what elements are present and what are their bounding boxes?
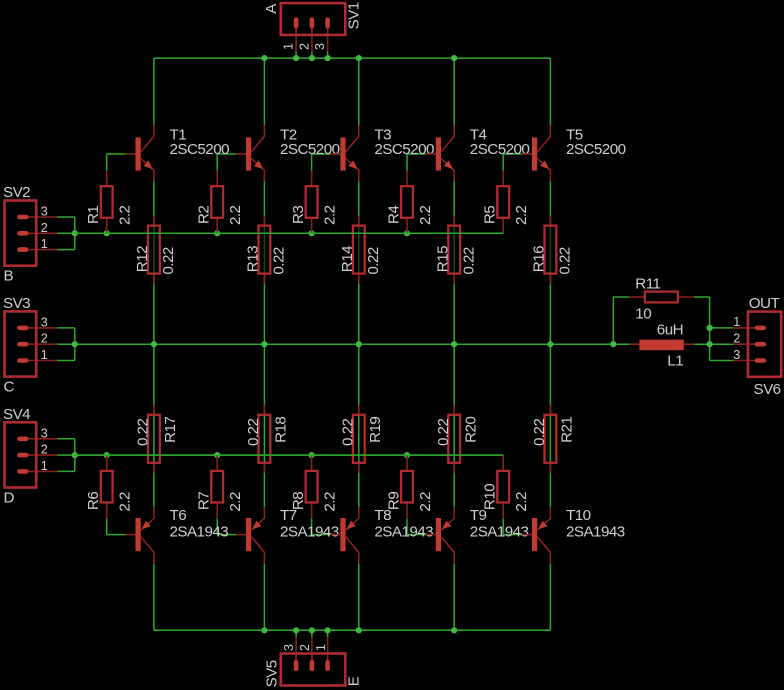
resistor R4 (2.2)	[401, 171, 413, 234]
junction top rail	[451, 55, 457, 61]
resistor R19 (0.22)	[353, 405, 365, 473]
svg-text:R17: R17	[162, 417, 179, 443]
svg-text:1: 1	[733, 315, 740, 329]
connector SV3	[5, 311, 58, 376]
junction bottom rail	[309, 627, 315, 633]
resistor R17 (0.22)	[148, 405, 160, 473]
wire column 2 lower segment	[263, 564, 265, 631]
svg-text:2SC5200: 2SC5200	[170, 141, 230, 158]
wire base branch T2 horizontal	[217, 153, 236, 155]
junction row C	[610, 341, 616, 347]
svg-text:R2: R2	[196, 206, 213, 224]
transistor T4 (2SC5200) NPN	[426, 125, 455, 181]
junction row C	[72, 341, 78, 347]
svg-text:T6: T6	[170, 507, 187, 524]
wire column 3 emitter to row C segment	[358, 181, 360, 344]
wire column 5 emitter to row C segment	[549, 181, 551, 344]
svg-text:R13: R13	[245, 246, 262, 272]
connector SV6	[733, 312, 781, 377]
svg-text:1: 1	[314, 644, 328, 651]
wire SV6 pin 3 net	[710, 360, 733, 362]
svg-text:2SA1943: 2SA1943	[374, 523, 433, 540]
svg-text:0.22: 0.22	[160, 247, 177, 274]
wire column 1 row C to bottom emitter segment	[153, 344, 155, 507]
svg-text:2: 2	[298, 644, 312, 651]
transistor T8 (2SA1943) PNP	[330, 507, 359, 563]
resistor R6 (2.2)	[101, 455, 113, 518]
transistor T1 (2SC5200) NPN	[125, 125, 153, 181]
svg-text:2SA1943: 2SA1943	[470, 523, 529, 540]
wire SV2 pin 1 net	[57, 249, 75, 251]
junction bottom rail	[261, 627, 267, 633]
wire column 3 lower segment	[358, 564, 360, 631]
resistor R5 (2.2)	[497, 171, 509, 234]
junction top rail	[293, 55, 299, 61]
svg-text:R14: R14	[339, 246, 356, 272]
svg-text:R4: R4	[385, 206, 402, 224]
svg-text:2.2: 2.2	[117, 492, 134, 512]
junction row D	[72, 452, 78, 458]
inductor L1 (6uH)	[629, 340, 694, 351]
connector SV5	[281, 637, 345, 686]
wire row D net (bases bottom)	[75, 454, 503, 456]
junction row C	[151, 341, 157, 347]
svg-text:R16: R16	[531, 246, 548, 272]
svg-text:2.2: 2.2	[322, 205, 339, 225]
svg-text:R3: R3	[290, 206, 307, 224]
junction row C	[707, 341, 713, 347]
wire base branch T5 horizontal	[503, 153, 522, 155]
resistor R13 (0.22)	[259, 216, 271, 284]
svg-text:0.22: 0.22	[340, 419, 357, 446]
wire base branch T8 horizontal	[312, 534, 331, 536]
junction row B	[72, 230, 78, 236]
svg-text:3: 3	[41, 316, 48, 330]
wire base branch T1 horizontal	[107, 153, 126, 155]
wire row C net (output)	[75, 343, 630, 345]
svg-text:3: 3	[313, 43, 327, 50]
wire SV1 pin net	[311, 52, 313, 59]
junction row B	[104, 230, 110, 236]
wire base branch T1 vertical	[106, 154, 108, 171]
junction bottom rail	[325, 627, 331, 633]
svg-text:0.22: 0.22	[531, 419, 548, 446]
svg-text:1: 1	[282, 43, 296, 50]
svg-text:0.22: 0.22	[365, 247, 382, 274]
resistor R18 (0.22)	[259, 405, 271, 473]
wire base branch T4 horizontal	[407, 153, 426, 155]
svg-text:T10: T10	[566, 507, 591, 524]
wire SV5 pin net	[295, 630, 297, 637]
junction bottom rail	[293, 627, 299, 633]
resistor R15 (0.22)	[448, 216, 460, 284]
junction row D	[214, 452, 220, 458]
junction row B	[309, 230, 315, 236]
svg-text:2SC5200: 2SC5200	[280, 141, 340, 158]
resistor R9 (2.2)	[401, 455, 413, 518]
junction top rail	[325, 55, 331, 61]
svg-text:0.22: 0.22	[135, 419, 152, 446]
wire base branch T7 vertical	[216, 519, 218, 535]
svg-text:2SC5200: 2SC5200	[566, 141, 626, 158]
resistor R1 (2.2)	[101, 171, 113, 234]
transistor T9 (2SA1943) PNP	[426, 507, 455, 563]
svg-text:2SA1943: 2SA1943	[566, 523, 625, 540]
connector SV4	[5, 422, 58, 487]
wire SV6 pin 1 net	[710, 327, 733, 329]
svg-text:2.2: 2.2	[322, 492, 339, 512]
resistor R16 (0.22)	[545, 216, 557, 284]
svg-text:R1: R1	[85, 206, 102, 224]
resistor R12 (0.22)	[148, 216, 160, 284]
resistor R3 (2.2)	[306, 171, 318, 234]
resistor R21 (0.22)	[545, 405, 557, 473]
wire base branch T4 vertical	[406, 154, 408, 171]
wire column 1 upper segment	[153, 58, 155, 125]
svg-text:R5: R5	[482, 206, 499, 224]
wire R11 left horizontal	[613, 296, 629, 298]
wire base branch T3 vertical	[311, 154, 313, 171]
wire column 2 upper segment	[263, 58, 265, 125]
resistor R8 (2.2)	[306, 455, 318, 518]
junction row C	[356, 341, 362, 347]
svg-text:B: B	[4, 268, 14, 285]
resistor R7 (2.2)	[211, 455, 223, 518]
junction row B	[404, 230, 410, 236]
wire column 2 emitter to row C segment	[263, 181, 265, 344]
svg-text:R9: R9	[385, 492, 402, 510]
svg-text:SV1: SV1	[346, 2, 363, 29]
wire column 3 upper segment	[358, 58, 360, 125]
svg-text:R20: R20	[462, 417, 479, 443]
wire base branch T6 horizontal	[107, 534, 126, 536]
svg-text:3: 3	[41, 426, 48, 440]
svg-text:2.2: 2.2	[227, 492, 244, 512]
wire base branch T10 horizontal	[503, 534, 522, 536]
wire base branch T2 vertical	[216, 154, 218, 171]
svg-text:R15: R15	[434, 246, 451, 272]
svg-text:0.22: 0.22	[460, 247, 477, 274]
svg-text:2SA1943: 2SA1943	[280, 523, 339, 540]
wire column 4 lower segment	[453, 564, 455, 631]
wire column 5 lower segment	[549, 564, 551, 631]
wire R11 branch vertical left	[612, 297, 614, 344]
svg-text:0.22: 0.22	[435, 419, 452, 446]
wire SV4 pin 2 net	[57, 454, 75, 456]
wire column 5 upper segment	[549, 58, 551, 125]
svg-text:D: D	[4, 489, 15, 506]
wire bottom rail net	[154, 629, 551, 631]
svg-text:L1: L1	[667, 353, 683, 370]
svg-text:1: 1	[41, 348, 48, 362]
wire SV5 pin net	[311, 630, 313, 637]
svg-text:R7: R7	[196, 492, 213, 510]
junction SV6 pin1 node	[707, 325, 713, 331]
junction row D	[309, 452, 315, 458]
svg-text:0.22: 0.22	[557, 247, 574, 274]
wire SV4 pin 3 net	[57, 438, 75, 440]
junction row B	[214, 230, 220, 236]
svg-text:10: 10	[635, 305, 651, 322]
svg-text:3: 3	[41, 205, 48, 219]
wire row B net overlay	[75, 232, 503, 234]
svg-text:2: 2	[297, 43, 311, 50]
transistor T10 (2SA1943) PNP	[522, 507, 551, 563]
junction bottom rail	[451, 627, 457, 633]
svg-text:2.2: 2.2	[513, 492, 530, 512]
transistor T6 (2SA1943) PNP	[125, 507, 153, 563]
junction top rail	[309, 55, 315, 61]
wire column 5 row C to bottom emitter segment	[549, 344, 551, 507]
svg-text:R18: R18	[273, 417, 290, 443]
connector SV1	[281, 3, 345, 51]
svg-text:2.2: 2.2	[227, 205, 244, 225]
wire column 2 row C to bottom emitter segment	[263, 344, 265, 507]
junction row C	[547, 341, 553, 347]
resistor R2 (2.2)	[211, 171, 223, 234]
wire base branch T6 vertical	[106, 519, 108, 535]
svg-text:3: 3	[733, 348, 740, 362]
svg-text:3: 3	[282, 644, 296, 651]
svg-text:2: 2	[733, 332, 740, 346]
svg-text:2SC5200: 2SC5200	[470, 141, 530, 158]
svg-text:SV5: SV5	[263, 660, 280, 687]
wire SV4 pin bundle vertical stub	[74, 439, 76, 472]
svg-text:2.2: 2.2	[513, 205, 530, 225]
wire R11 right horizontal	[694, 296, 710, 298]
wire row C net right of L1	[694, 343, 733, 345]
svg-text:1: 1	[41, 459, 48, 473]
svg-text:R11: R11	[635, 275, 660, 292]
svg-text:0.22: 0.22	[245, 419, 262, 446]
junction top rail	[356, 55, 362, 61]
wire column 1 emitter to row C segment	[153, 181, 155, 344]
svg-text:2SA1943: 2SA1943	[170, 523, 229, 540]
svg-text:A: A	[263, 3, 280, 14]
junction top rail	[261, 55, 267, 61]
wire SV5 pin net	[327, 630, 329, 637]
transistor T3 (2SC5200) NPN	[330, 125, 359, 181]
transistor T5 (2SC5200) NPN	[522, 125, 551, 181]
svg-text:SV6: SV6	[754, 381, 781, 398]
wire row D net overlay	[75, 454, 503, 456]
svg-text:2: 2	[41, 221, 48, 235]
wire column 3 row C to bottom emitter segment	[358, 344, 360, 507]
wire top rail net	[154, 57, 551, 59]
transistor T7 (2SA1943) PNP	[236, 507, 265, 563]
svg-text:SV2: SV2	[3, 184, 30, 201]
wire R11 branch vertical right / SV6 bundle	[709, 297, 711, 361]
wire column 4 emitter to row C segment	[453, 181, 455, 344]
svg-text:SV3: SV3	[3, 295, 30, 312]
wire SV3 pin 3 net	[57, 327, 75, 329]
svg-text:2: 2	[41, 443, 48, 457]
junction row C	[451, 341, 457, 347]
wire SV4 pin 1 net	[57, 470, 75, 472]
svg-text:1: 1	[41, 237, 48, 251]
svg-text:OUT: OUT	[749, 295, 780, 312]
junction row C	[261, 341, 267, 347]
transistor T2 (2SC5200) NPN	[236, 125, 265, 181]
svg-text:C: C	[4, 378, 15, 395]
wire base branch T8 vertical	[311, 519, 313, 535]
resistor R10 (2.2)	[497, 455, 509, 518]
svg-text:R21: R21	[559, 417, 576, 443]
svg-text:R12: R12	[134, 246, 151, 272]
svg-text:R10: R10	[482, 484, 499, 510]
svg-text:R19: R19	[367, 417, 384, 443]
wire SV1 pin net	[295, 52, 297, 59]
svg-text:6uH: 6uH	[657, 322, 683, 339]
wire column 1 lower segment	[153, 564, 155, 631]
resistor R14 (0.22)	[353, 216, 365, 284]
wire column 4 upper segment	[453, 58, 455, 125]
svg-text:2.2: 2.2	[417, 492, 434, 512]
wire SV2 pin bundle vertical stub	[74, 217, 76, 250]
wire SV2 pin 3 net	[57, 216, 75, 218]
wire SV3 pin bundle vertical stub	[74, 328, 76, 361]
svg-text:R6: R6	[85, 492, 102, 510]
svg-text:2.2: 2.2	[117, 205, 134, 225]
svg-text:0.22: 0.22	[271, 247, 288, 274]
svg-text:E: E	[346, 676, 363, 686]
svg-text:SV4: SV4	[3, 406, 30, 423]
wire SV3 pin 2 net	[57, 343, 75, 345]
wire row B net (bases top)	[75, 232, 503, 234]
resistor R11 (10)	[629, 292, 694, 303]
wire SV1 pin net	[327, 52, 329, 59]
wire base branch T5 vertical	[502, 154, 504, 171]
wire SV2 pin 2 net	[57, 232, 75, 234]
junction row D	[404, 452, 410, 458]
svg-text:2SC5200: 2SC5200	[374, 141, 434, 158]
wire column 4 row C to bottom emitter segment	[453, 344, 455, 507]
wire base branch T7 horizontal	[217, 534, 236, 536]
svg-text:2.2: 2.2	[417, 205, 434, 225]
wire base branch T9 horizontal	[407, 534, 426, 536]
svg-text:2: 2	[41, 332, 48, 346]
svg-text:R8: R8	[290, 492, 307, 510]
wire SV3 pin 1 net	[57, 360, 75, 362]
resistor R20 (0.22)	[448, 405, 460, 473]
wire base branch T10 vertical	[502, 519, 504, 535]
wire base branch T9 vertical	[406, 519, 408, 535]
wire base branch T3 horizontal	[312, 153, 331, 155]
junction row D	[104, 452, 110, 458]
connector SV2	[5, 201, 58, 266]
junction bottom rail	[356, 627, 362, 633]
